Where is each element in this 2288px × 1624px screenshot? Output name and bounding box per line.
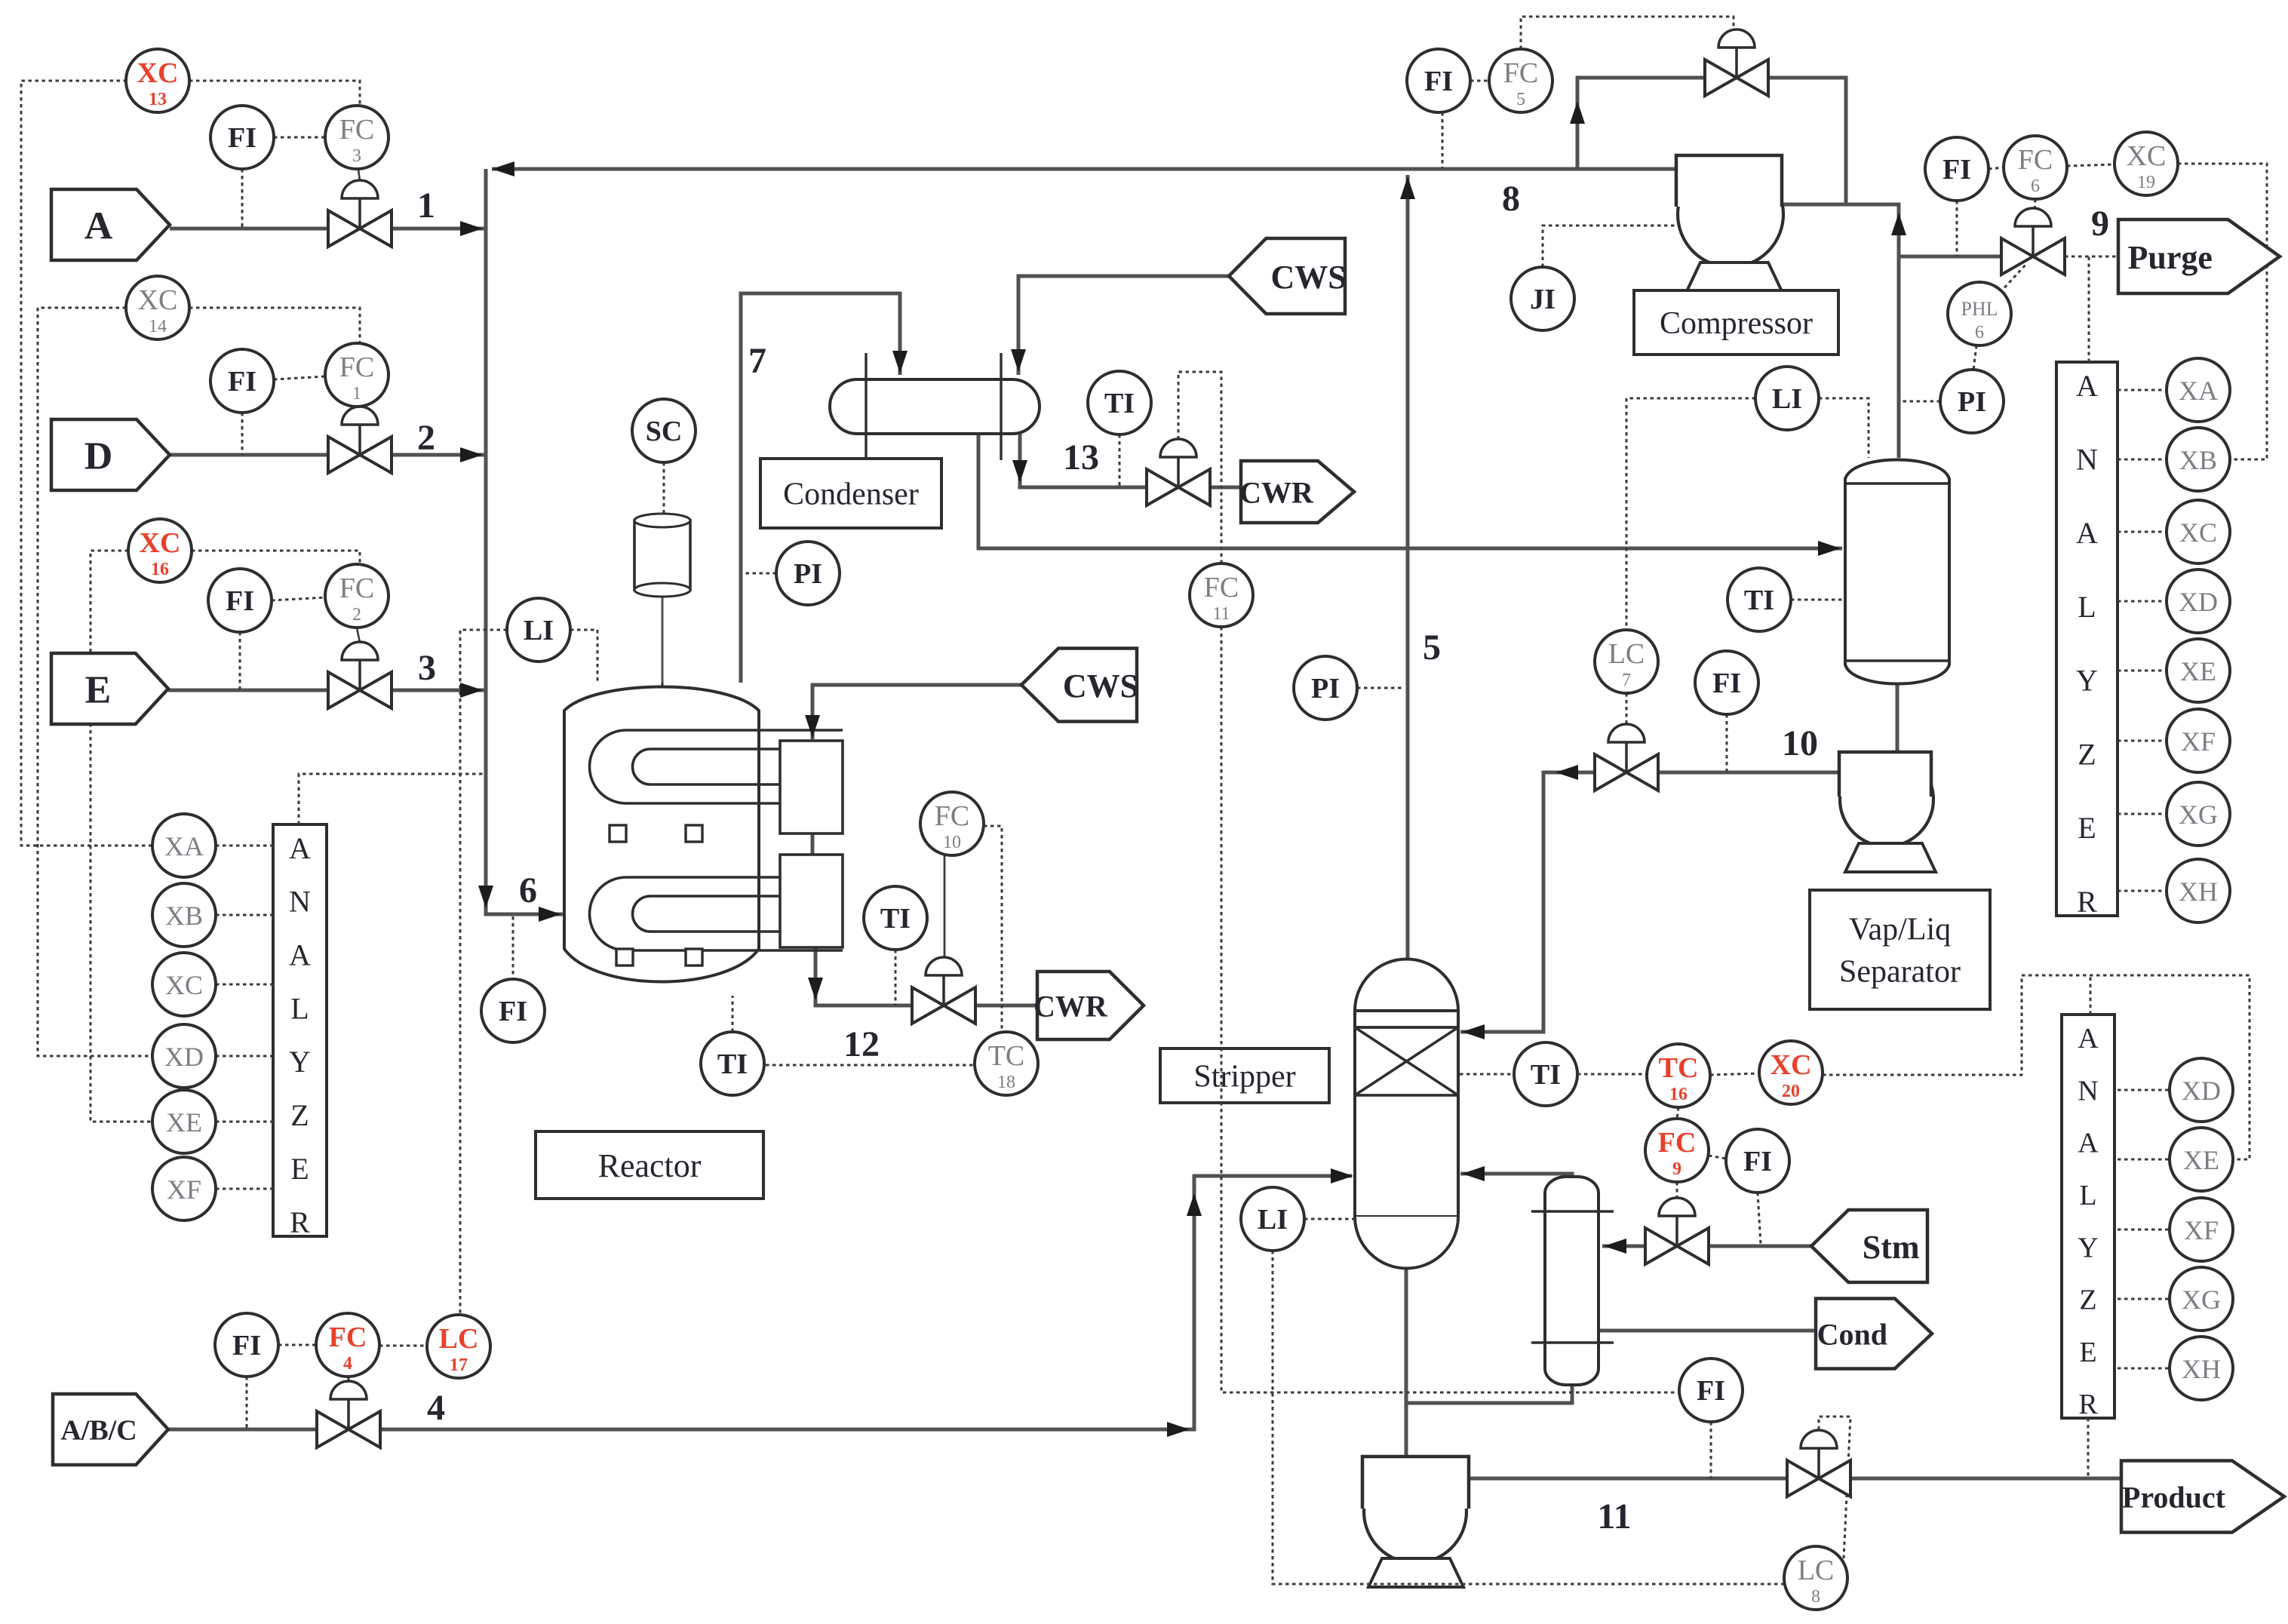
- svg-text:R: R: [2078, 1389, 2098, 1420]
- svg-text:Product: Product: [2122, 1480, 2226, 1514]
- svg-text:FI: FI: [1424, 66, 1453, 97]
- svg-text:3: 3: [352, 146, 361, 166]
- svg-text:Vap/Liq: Vap/Liq: [1849, 913, 1951, 947]
- svg-text:LI: LI: [524, 615, 554, 646]
- svg-text:LI: LI: [1258, 1204, 1288, 1236]
- svg-text:XC: XC: [2127, 140, 2167, 172]
- svg-text:PHL: PHL: [1961, 298, 1998, 320]
- svg-text:FC: FC: [1658, 1127, 1697, 1159]
- svg-text:Reactor: Reactor: [598, 1147, 702, 1184]
- svg-text:XE: XE: [166, 1107, 202, 1137]
- svg-text:6: 6: [519, 870, 537, 910]
- svg-text:4: 4: [343, 1354, 352, 1374]
- svg-text:XE: XE: [2180, 656, 2216, 686]
- svg-text:FI: FI: [228, 366, 256, 398]
- svg-text:PI: PI: [794, 558, 822, 590]
- svg-text:2: 2: [352, 605, 361, 625]
- svg-text:Compressor: Compressor: [1660, 306, 1813, 341]
- svg-text:CWR: CWR: [1239, 475, 1314, 509]
- svg-text:FI: FI: [226, 585, 254, 617]
- svg-text:LC: LC: [1608, 638, 1645, 670]
- svg-text:18: 18: [997, 1073, 1015, 1092]
- svg-text:XC: XC: [138, 284, 178, 316]
- svg-text:16: 16: [151, 560, 169, 579]
- svg-text:17: 17: [450, 1355, 468, 1375]
- svg-text:Separator: Separator: [1839, 955, 1961, 990]
- svg-text:E: E: [84, 669, 111, 712]
- svg-text:XE: XE: [2183, 1145, 2219, 1175]
- svg-text:8: 8: [1502, 179, 1520, 219]
- svg-text:TC: TC: [1659, 1052, 1699, 1084]
- svg-text:E: E: [2079, 1337, 2096, 1368]
- svg-text:7: 7: [1622, 671, 1631, 690]
- svg-text:1: 1: [352, 384, 361, 404]
- svg-text:11: 11: [1212, 604, 1230, 624]
- svg-text:13: 13: [1063, 437, 1099, 477]
- svg-text:A: A: [289, 938, 311, 972]
- svg-text:FC: FC: [339, 352, 374, 383]
- svg-text:TC: TC: [988, 1040, 1025, 1072]
- svg-text:A/B/C: A/B/C: [60, 1415, 137, 1447]
- svg-text:FC: FC: [339, 573, 374, 604]
- svg-text:8: 8: [1811, 1587, 1820, 1607]
- svg-text:Y: Y: [2076, 664, 2098, 698]
- svg-text:Purge: Purge: [2128, 239, 2213, 276]
- svg-text:XC: XC: [2179, 517, 2217, 548]
- svg-text:14: 14: [149, 317, 167, 336]
- svg-text:CWS: CWS: [1063, 668, 1138, 705]
- svg-text:LC: LC: [1798, 1555, 1835, 1586]
- svg-text:L: L: [290, 991, 309, 1025]
- svg-text:FI: FI: [499, 996, 527, 1027]
- svg-text:Cond: Cond: [1817, 1317, 1887, 1351]
- svg-text:20: 20: [1782, 1082, 1800, 1101]
- svg-text:1: 1: [417, 186, 435, 226]
- svg-text:A: A: [2076, 369, 2098, 403]
- svg-text:XA: XA: [2179, 376, 2218, 406]
- svg-text:A: A: [84, 205, 113, 248]
- svg-text:XB: XB: [165, 901, 203, 931]
- svg-text:Y: Y: [2078, 1232, 2098, 1263]
- svg-text:Condenser: Condenser: [783, 477, 919, 512]
- svg-text:N: N: [2076, 443, 2098, 477]
- svg-text:XF: XF: [167, 1174, 201, 1205]
- svg-text:6: 6: [2031, 177, 2040, 196]
- svg-text:XH: XH: [2179, 876, 2218, 907]
- svg-text:TI: TI: [1744, 585, 1774, 616]
- svg-text:XB: XB: [2179, 445, 2217, 475]
- svg-text:XD: XD: [2182, 1076, 2221, 1106]
- svg-text:XA: XA: [164, 831, 204, 861]
- svg-text:FC: FC: [339, 114, 374, 146]
- svg-text:Z: Z: [290, 1098, 309, 1132]
- svg-text:XG: XG: [2179, 800, 2218, 830]
- svg-text:JI: JI: [1530, 284, 1556, 315]
- svg-text:CWR: CWR: [1033, 989, 1108, 1023]
- svg-text:L: L: [2078, 590, 2096, 624]
- svg-text:R: R: [290, 1205, 310, 1239]
- svg-text:XH: XH: [2182, 1354, 2221, 1384]
- svg-text:PI: PI: [1958, 386, 1986, 418]
- svg-text:FI: FI: [228, 122, 256, 154]
- svg-text:12: 12: [843, 1024, 880, 1064]
- svg-text:A: A: [289, 831, 311, 865]
- svg-text:LI: LI: [1772, 383, 1802, 415]
- svg-text:13: 13: [149, 90, 167, 109]
- svg-text:Stripper: Stripper: [1193, 1060, 1295, 1094]
- svg-text:R: R: [2077, 885, 2097, 919]
- svg-text:TI: TI: [880, 903, 911, 935]
- svg-text:7: 7: [748, 341, 766, 381]
- svg-text:FI: FI: [1942, 154, 1971, 186]
- svg-text:FC: FC: [2018, 144, 2053, 176]
- svg-text:11: 11: [1597, 1497, 1631, 1537]
- svg-text:10: 10: [943, 833, 961, 852]
- svg-text:3: 3: [418, 648, 436, 688]
- svg-text:5: 5: [1516, 90, 1525, 109]
- svg-text:Z: Z: [2078, 737, 2096, 771]
- svg-text:16: 16: [1669, 1085, 1688, 1104]
- svg-text:A: A: [2076, 516, 2098, 550]
- svg-text:4: 4: [427, 1388, 445, 1428]
- svg-text:10: 10: [1782, 723, 1818, 763]
- svg-text:A: A: [2078, 1023, 2099, 1055]
- svg-text:D: D: [84, 435, 113, 478]
- svg-text:A: A: [2078, 1128, 2099, 1159]
- svg-text:Z: Z: [2079, 1285, 2096, 1316]
- svg-text:5: 5: [1423, 628, 1441, 668]
- svg-text:FI: FI: [1697, 1375, 1725, 1407]
- svg-text:SC: SC: [646, 416, 683, 447]
- svg-text:XC: XC: [137, 57, 179, 89]
- svg-text:TI: TI: [1104, 388, 1135, 419]
- svg-text:LC: LC: [439, 1323, 479, 1355]
- svg-text:XF: XF: [2181, 726, 2216, 757]
- svg-text:FI: FI: [232, 1330, 261, 1362]
- svg-text:XC: XC: [165, 970, 203, 1000]
- svg-text:FC: FC: [1204, 572, 1239, 603]
- svg-text:Stm: Stm: [1863, 1229, 1920, 1266]
- svg-text:TI: TI: [717, 1048, 748, 1080]
- svg-text:XC: XC: [140, 527, 181, 559]
- svg-text:TI: TI: [1531, 1059, 1561, 1091]
- svg-text:Y: Y: [289, 1045, 311, 1079]
- svg-text:E: E: [2078, 811, 2096, 845]
- svg-text:XD: XD: [164, 1042, 204, 1072]
- svg-text:L: L: [2079, 1180, 2096, 1211]
- svg-text:FI: FI: [1743, 1146, 1772, 1177]
- svg-text:9: 9: [2091, 204, 2109, 244]
- svg-text:2: 2: [417, 418, 435, 458]
- svg-text:FC: FC: [1503, 57, 1538, 89]
- svg-text:PI: PI: [1311, 673, 1340, 705]
- svg-text:N: N: [2078, 1075, 2098, 1107]
- svg-text:FI: FI: [1712, 668, 1741, 699]
- svg-text:E: E: [290, 1152, 309, 1186]
- svg-text:FC: FC: [935, 800, 969, 832]
- svg-text:XD: XD: [2179, 587, 2218, 617]
- svg-text:N: N: [289, 885, 311, 919]
- svg-text:6: 6: [1975, 323, 1984, 342]
- svg-text:XC: XC: [1771, 1049, 1812, 1081]
- svg-text:19: 19: [2137, 173, 2155, 192]
- svg-text:XG: XG: [2182, 1285, 2221, 1315]
- svg-text:9: 9: [1672, 1159, 1681, 1179]
- svg-text:XF: XF: [2184, 1215, 2219, 1245]
- svg-text:CWS: CWS: [1271, 259, 1347, 296]
- svg-text:FC: FC: [329, 1322, 367, 1353]
